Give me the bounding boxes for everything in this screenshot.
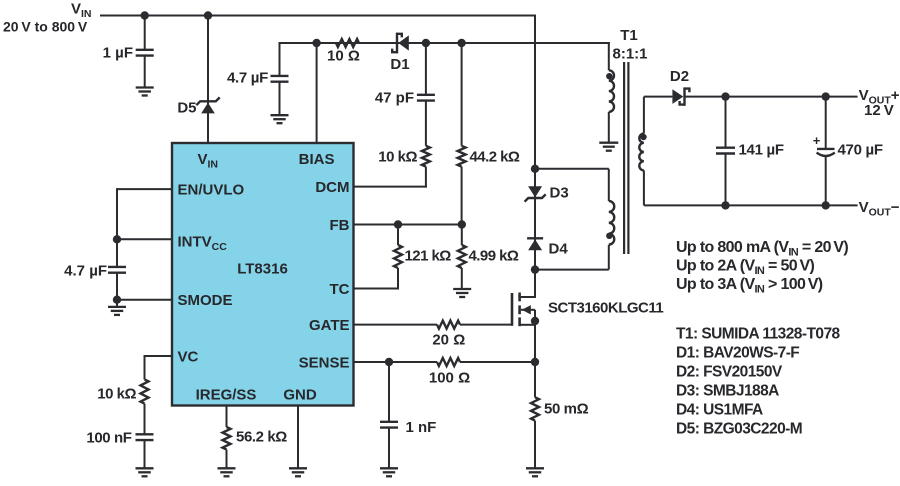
ground 100nF xyxy=(136,467,154,469)
svg-text:T1: SUMIDA 11328-T078: T1: SUMIDA 11328-T078 xyxy=(676,326,841,343)
ground 50m xyxy=(526,467,544,469)
svg-text:1 nF: 1 nF xyxy=(406,419,437,436)
svg-text:Up to 2A (VIN = 50 V): Up to 2A (VIN = 50 V) xyxy=(676,258,815,278)
resistor 10R xyxy=(336,39,359,47)
wire GATE left xyxy=(354,324,437,326)
capacitor 470uF electrolytic xyxy=(817,148,835,150)
capacitor 4.7uF bias xyxy=(271,75,289,77)
wire SENSE left xyxy=(354,361,437,363)
svg-text:D5: D5 xyxy=(177,100,196,117)
wire bias winding top xyxy=(608,42,610,70)
svg-text:44.2 kΩ: 44.2 kΩ xyxy=(470,149,520,166)
svg-text:SENSE: SENSE xyxy=(299,354,350,371)
resistor 56.2k xyxy=(223,427,231,450)
svg-text:56.2 kΩ: 56.2 kΩ xyxy=(236,429,287,446)
wire IREG/SS xyxy=(226,406,228,428)
junction 470uF bottom xyxy=(822,201,830,209)
wire bias winding bottom xyxy=(608,112,610,143)
capacitor 1nF xyxy=(380,421,398,423)
svg-text:D5: BZG03C220-M: D5: BZG03C220-M xyxy=(676,421,802,438)
svg-text:470 µF: 470 µF xyxy=(838,142,883,159)
junction SENSE/1nF xyxy=(385,358,393,366)
resistor 121k xyxy=(394,245,402,268)
svg-text:DCM: DCM xyxy=(315,179,349,196)
svg-text:10 Ω: 10 Ω xyxy=(327,48,360,65)
op-amp U1 LT8316 body xyxy=(172,143,354,406)
svg-text:GATE: GATE xyxy=(309,317,350,334)
node bias winding dot xyxy=(606,73,612,79)
svg-text:SMODE: SMODE xyxy=(178,292,233,309)
junction BIAS xyxy=(312,39,320,47)
transistor Q1 SCT3160KLGC11 xyxy=(511,293,514,326)
node secondary winding dot xyxy=(640,134,646,140)
resistor 50m xyxy=(531,397,539,420)
wire clamp vertical xyxy=(534,16,536,298)
wire VOUT+ rail xyxy=(685,96,858,98)
svg-text:EN/UVLO: EN/UVLO xyxy=(178,182,245,199)
diode D1 xyxy=(396,33,398,54)
wire 4.7uF bias bottom xyxy=(279,82,281,116)
svg-text:12 V: 12 V xyxy=(864,102,894,119)
resistor 20R xyxy=(437,321,460,329)
junction 47pF xyxy=(422,39,430,47)
capacitor 141uF xyxy=(716,146,735,148)
ground bias winding xyxy=(599,142,618,144)
wire source-50m xyxy=(534,363,536,397)
svg-text:10 kΩ: 10 kΩ xyxy=(97,386,136,403)
wire primary top xyxy=(535,168,609,170)
wire secondary-D2 xyxy=(644,96,673,98)
svg-text:GND: GND xyxy=(283,386,317,403)
wire 1uF top xyxy=(144,16,146,50)
svg-text:D2: FSV20150V: D2: FSV20150V xyxy=(676,364,783,381)
svg-text:Up to 800 mA (VIN = 20 V): Up to 800 mA (VIN = 20 V) xyxy=(676,239,848,259)
wire primary bottom xyxy=(608,245,610,270)
svg-text:8:1:1: 8:1:1 xyxy=(612,45,647,62)
svg-text:+: + xyxy=(813,133,821,148)
ground 4.99k xyxy=(453,288,471,290)
capacitor 100nF xyxy=(136,433,154,435)
svg-text:1 µF: 1 µF xyxy=(103,45,133,62)
resistor 10k VC xyxy=(141,379,149,403)
wire VC xyxy=(145,355,173,357)
wire 141uF top xyxy=(725,97,727,148)
wire secondary top xyxy=(643,97,645,134)
junction VIN/D5 xyxy=(204,11,212,19)
junction FB/4.99k xyxy=(458,220,466,228)
wire 121k top xyxy=(397,225,399,246)
svg-text:141 µF: 141 µF xyxy=(739,142,784,159)
capacitor 4.7uF left xyxy=(108,266,126,268)
junction clamp bottom xyxy=(531,265,539,273)
junction VIN/1uF xyxy=(141,11,149,19)
svg-text:SCT3160KLGC11: SCT3160KLGC11 xyxy=(548,300,663,317)
ground 1nF xyxy=(380,467,398,469)
svg-text:FB: FB xyxy=(330,217,350,234)
wire 47pF-10k xyxy=(425,101,427,146)
ground 1uF xyxy=(136,86,154,88)
ground 4.7uF bias xyxy=(271,114,289,116)
wire 47pF top xyxy=(425,43,427,95)
svg-text:10 kΩ: 10 kΩ xyxy=(378,149,417,166)
junction 470uF top xyxy=(822,92,830,100)
svg-text:47 pF: 47 pF xyxy=(375,90,414,107)
svg-text:4.99 kΩ: 4.99 kΩ xyxy=(469,248,519,265)
wire 10k-100nF xyxy=(144,404,146,435)
wire FB xyxy=(354,224,462,226)
svg-text:IREG/SS: IREG/SS xyxy=(196,386,257,403)
junction 141uF top xyxy=(721,92,729,100)
wire 44.2k bottom xyxy=(461,167,463,225)
wire 1nF top xyxy=(388,362,390,422)
wire 4.99k top xyxy=(461,225,463,246)
svg-text:20 Ω: 20 Ω xyxy=(432,332,465,349)
wire 4.7uF bias top xyxy=(279,42,281,76)
svg-text:D1: D1 xyxy=(390,56,409,73)
resistor 10k DCM xyxy=(422,146,430,167)
svg-text:LT8316: LT8316 xyxy=(237,261,288,278)
wire bias rail xyxy=(280,42,610,44)
ground SMODE cap xyxy=(108,306,126,308)
wire 1nF bottom xyxy=(388,428,390,469)
transformer T1 bias winding xyxy=(609,70,614,112)
transformer T1 secondary winding xyxy=(639,134,644,171)
wire SMODE xyxy=(117,299,172,301)
wire 100nF bottom xyxy=(144,440,146,468)
svg-text:20 V to 800 V: 20 V to 800 V xyxy=(3,19,88,35)
svg-text:T1: T1 xyxy=(620,27,638,44)
wire VOUT- rail xyxy=(644,204,858,206)
transformer T1 core xyxy=(623,62,625,254)
svg-text:121 kΩ: 121 kΩ xyxy=(405,248,452,265)
wire 56.2k bottom xyxy=(226,450,228,469)
svg-text:D4: D4 xyxy=(549,241,569,258)
junction clamp top xyxy=(531,165,539,173)
wire INTVCC xyxy=(117,238,172,240)
wire DCM xyxy=(425,167,427,188)
wire secondary bottom xyxy=(643,170,645,205)
svg-text:Up to 3A (VIN > 100 V): Up to 3A (VIN > 100 V) xyxy=(676,276,823,296)
svg-text:BIAS: BIAS xyxy=(299,151,335,168)
wire 50m bottom xyxy=(534,421,536,469)
capacitor 47pF xyxy=(417,94,435,96)
resistor 4.99k xyxy=(458,245,466,268)
svg-text:4.7 µF: 4.7 µF xyxy=(64,263,107,280)
diode D5 zener xyxy=(201,103,215,114)
ground GND pin xyxy=(289,467,307,469)
svg-text:TC: TC xyxy=(330,281,350,298)
capacitor 1uF xyxy=(136,49,154,51)
wire GND pin xyxy=(297,406,299,469)
transformer T1 primary winding xyxy=(609,201,614,245)
wire GATE right xyxy=(460,324,513,326)
svg-text:D2: D2 xyxy=(670,68,689,85)
svg-text:D4: US1MFA: D4: US1MFA xyxy=(676,402,763,419)
resistor 100R xyxy=(437,358,460,366)
wire TC xyxy=(397,268,399,289)
wire EN/UVLO xyxy=(117,188,172,190)
diode D2 xyxy=(672,89,683,104)
junction Q1 source xyxy=(531,317,539,325)
wire 470uF top xyxy=(825,97,827,149)
junction INTVCC xyxy=(113,235,121,243)
wire VIN rail xyxy=(100,15,536,17)
svg-text:D3: SMBJ188A: D3: SMBJ188A xyxy=(676,383,779,400)
svg-text:D1: BAV20WS-7-F: D1: BAV20WS-7-F xyxy=(676,345,799,362)
wire 44.2k top xyxy=(461,43,463,146)
wire 4.99k bottom xyxy=(461,268,463,289)
svg-text:100 Ω: 100 Ω xyxy=(429,370,470,387)
junction SENSE/source xyxy=(531,358,539,366)
wire 470uF bottom xyxy=(825,157,827,206)
svg-text:4.7 µF: 4.7 µF xyxy=(227,70,268,87)
resistor 44.2k xyxy=(458,146,466,167)
wire 141uF bottom xyxy=(725,154,727,206)
svg-text:100 nF: 100 nF xyxy=(86,430,131,447)
diode D4 xyxy=(527,237,543,239)
ground 56.2k xyxy=(218,467,236,469)
junction FB/121k xyxy=(394,220,402,228)
wire 1uF bottom xyxy=(144,56,146,88)
diode D3 TVS xyxy=(528,186,542,197)
junction SMODE xyxy=(113,296,121,304)
junction 141uF bottom xyxy=(721,201,729,209)
svg-text:D3: D3 xyxy=(550,185,569,202)
junction 44.2k top xyxy=(457,39,465,47)
svg-text:VC: VC xyxy=(178,348,199,365)
wire BIAS pin xyxy=(316,43,318,144)
svg-text:50 mΩ: 50 mΩ xyxy=(544,401,589,418)
wire D5 branch xyxy=(207,16,209,144)
wire SENSE right xyxy=(460,361,536,363)
node primary winding dot xyxy=(606,233,612,239)
